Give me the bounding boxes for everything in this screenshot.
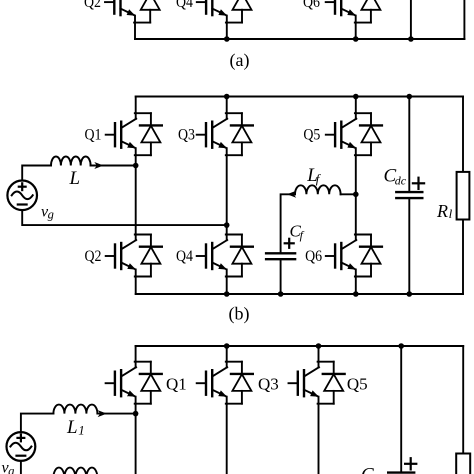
wire top rail to Q1 collector xyxy=(135,97,137,114)
node top rail leg 3 xyxy=(353,94,359,100)
wire Q3 emitter down (clipped at bottom) xyxy=(226,404,228,474)
svg-text:R: R xyxy=(436,201,448,221)
resistor Rl xyxy=(457,172,470,220)
wire Q2 emitter to bottom rail xyxy=(135,277,137,295)
capacitor Cf xyxy=(266,252,295,254)
wire Cdc to bottom rail xyxy=(408,198,410,294)
polarity + of Cdc xyxy=(413,182,424,184)
svg-text:Q2: Q2 xyxy=(85,248,102,265)
transistor Q2 (IGBT + antiparallel diode) xyxy=(106,235,162,277)
wire top rail to Q1 collector xyxy=(135,346,137,362)
transistor Q3 (IGBT + antiparallel diode) xyxy=(197,113,253,155)
resistor Rl (c, clipped) xyxy=(456,454,470,474)
wire bottom DC rail of section (a) xyxy=(135,38,464,40)
wire inductor L1 to leg-1 tap with current arrow xyxy=(97,413,135,415)
node leg-2 / bottom rail xyxy=(224,36,230,42)
wire load branch right side (clipped at top) xyxy=(463,0,465,39)
transistor Q4 (IGBT + antiparallel diode, clipped at top) xyxy=(197,0,253,23)
wire source negative terminal down (clipped at bottom) xyxy=(20,461,22,474)
transistor Q5 (IGBT + antiparallel diode) xyxy=(289,362,345,404)
svg-text:L: L xyxy=(69,168,81,189)
node capacitor / bottom rail xyxy=(408,36,414,42)
node top rail leg 3 (c) xyxy=(316,343,322,349)
transistor Q6 (IGBT + antiparallel diode) xyxy=(326,235,382,277)
node bottom rail leg 3 xyxy=(353,291,359,297)
svg-text:Q4: Q4 xyxy=(176,248,193,265)
node top rail leg 2 xyxy=(224,94,230,100)
node top rail Cdc xyxy=(407,94,413,100)
svg-text:L: L xyxy=(66,417,78,438)
svg-text:Q3: Q3 xyxy=(258,375,279,394)
wire inductor L to leg-1 tap with current arrow xyxy=(91,165,136,167)
node top rail leg 2 (c) xyxy=(224,343,230,349)
capacitor Cdc xyxy=(396,191,422,193)
transistor Q1 (IGBT + antiparallel diode) xyxy=(106,113,162,155)
svg-text:f: f xyxy=(316,171,322,186)
node AC return tap leg 2 xyxy=(224,222,230,228)
transistor Q6 (IGBT + antiparallel diode, clipped at top) xyxy=(326,0,382,23)
svg-text:Q6: Q6 xyxy=(303,0,320,11)
wire dc-link capacitor branch (clipped at top) xyxy=(410,0,412,39)
inductor Lf xyxy=(295,185,341,194)
wire top rail to Q3 collector xyxy=(226,97,228,114)
svg-text:(a): (a) xyxy=(230,50,250,71)
transistor Q3 (IGBT + antiparallel diode) xyxy=(197,362,253,404)
svg-text:g: g xyxy=(48,208,54,222)
svg-text:Q5: Q5 xyxy=(347,375,368,394)
transistor Q1 (IGBT + antiparallel diode) xyxy=(106,362,162,404)
wire top rail to Cdc xyxy=(408,97,410,193)
wire Q5 emitter down (clipped at bottom) xyxy=(318,404,320,474)
svg-text:Q1: Q1 xyxy=(166,375,187,394)
node bottom rail leg 2 xyxy=(224,291,230,297)
node top rail Cdc (c) xyxy=(398,343,404,349)
polarity + of Cf xyxy=(285,242,294,244)
svg-text:g: g xyxy=(8,464,14,474)
capacitor Cdc (c, clipped) xyxy=(388,471,414,473)
svg-text:Q1: Q1 xyxy=(85,127,102,144)
wire Q1 emitter down past tap node (clipped at bottom) xyxy=(135,404,137,474)
svg-text:1: 1 xyxy=(78,422,85,437)
wire Q1 emitter to Q2 collector (through AC tap node) xyxy=(135,155,137,234)
svg-text:dc: dc xyxy=(395,173,407,187)
wire top rail to Q3 collector xyxy=(226,346,228,362)
voltage source vg (AC) xyxy=(7,181,37,211)
svg-text:Q4: Q4 xyxy=(176,0,193,11)
wire Q3 emitter to Q4 collector (through AC tap node) xyxy=(226,155,228,234)
wire bottom DC rail (b) xyxy=(136,293,463,295)
svg-text:C: C xyxy=(361,464,374,474)
wire Q4 emitter to bottom rail xyxy=(226,23,228,39)
node Cf / bottom rail xyxy=(278,291,284,297)
node filter tap leg 3 xyxy=(353,192,359,198)
node bottom rail Cdc xyxy=(407,291,413,297)
wire top rail to Q5 collector xyxy=(355,97,357,114)
wire Q4 emitter to bottom rail xyxy=(226,277,228,295)
wire Q6 emitter to bottom rail xyxy=(355,23,357,39)
node AC tap leg 1 xyxy=(133,163,139,169)
wire Q5 emitter to Q6 collector (through filter tap node) xyxy=(355,155,357,234)
wire source positive terminal up and right to inductor L1 xyxy=(21,414,54,433)
wire Rl to bottom rail xyxy=(462,220,464,295)
svg-text:Q2: Q2 xyxy=(84,0,101,11)
polarity + of Cdc (c) xyxy=(405,463,416,465)
svg-text:Q6: Q6 xyxy=(305,248,322,265)
voltage source vg (AC, section c) xyxy=(7,432,36,461)
wire dc-link capacitor branch (c) xyxy=(400,346,402,473)
transistor Q2 (IGBT + antiparallel diode, clipped at top) xyxy=(105,0,161,23)
wire top rail to Q5 collector xyxy=(318,346,320,362)
inductor L xyxy=(51,157,91,166)
svg-text:(b): (b) xyxy=(229,304,250,325)
wire source positive terminal up and right to inductor L xyxy=(22,166,51,181)
svg-text:Q5: Q5 xyxy=(303,127,320,144)
wire Lf right end to leg-3 tap xyxy=(341,193,356,195)
wire load branch (c) xyxy=(462,346,464,454)
svg-text:Q3: Q3 xyxy=(178,127,195,144)
transistor Q5 (IGBT + antiparallel diode) xyxy=(326,113,382,155)
transistor Q4 (IGBT + antiparallel diode) xyxy=(197,235,253,277)
wire Q6 emitter to bottom rail xyxy=(355,277,357,295)
wire top DC rail (c) xyxy=(136,345,464,347)
wire top rail to Rl xyxy=(462,97,464,172)
wire Lf to corner with arrow, down to Cf xyxy=(281,194,295,253)
node leg-3 / bottom rail xyxy=(353,36,359,42)
svg-text:l: l xyxy=(449,206,453,221)
inductor L2 (clipped at bottom edge) xyxy=(53,468,97,474)
wire Q2 emitter to bottom rail xyxy=(134,23,136,39)
wire top DC rail (b) xyxy=(136,96,463,98)
svg-text:f: f xyxy=(300,228,305,242)
inductor L1 xyxy=(53,405,97,414)
wire Cf to bottom rail xyxy=(280,259,282,294)
wire source negative terminal down and right to leg-2 tap xyxy=(22,210,227,225)
node AC tap leg 1 (c) xyxy=(133,411,139,417)
